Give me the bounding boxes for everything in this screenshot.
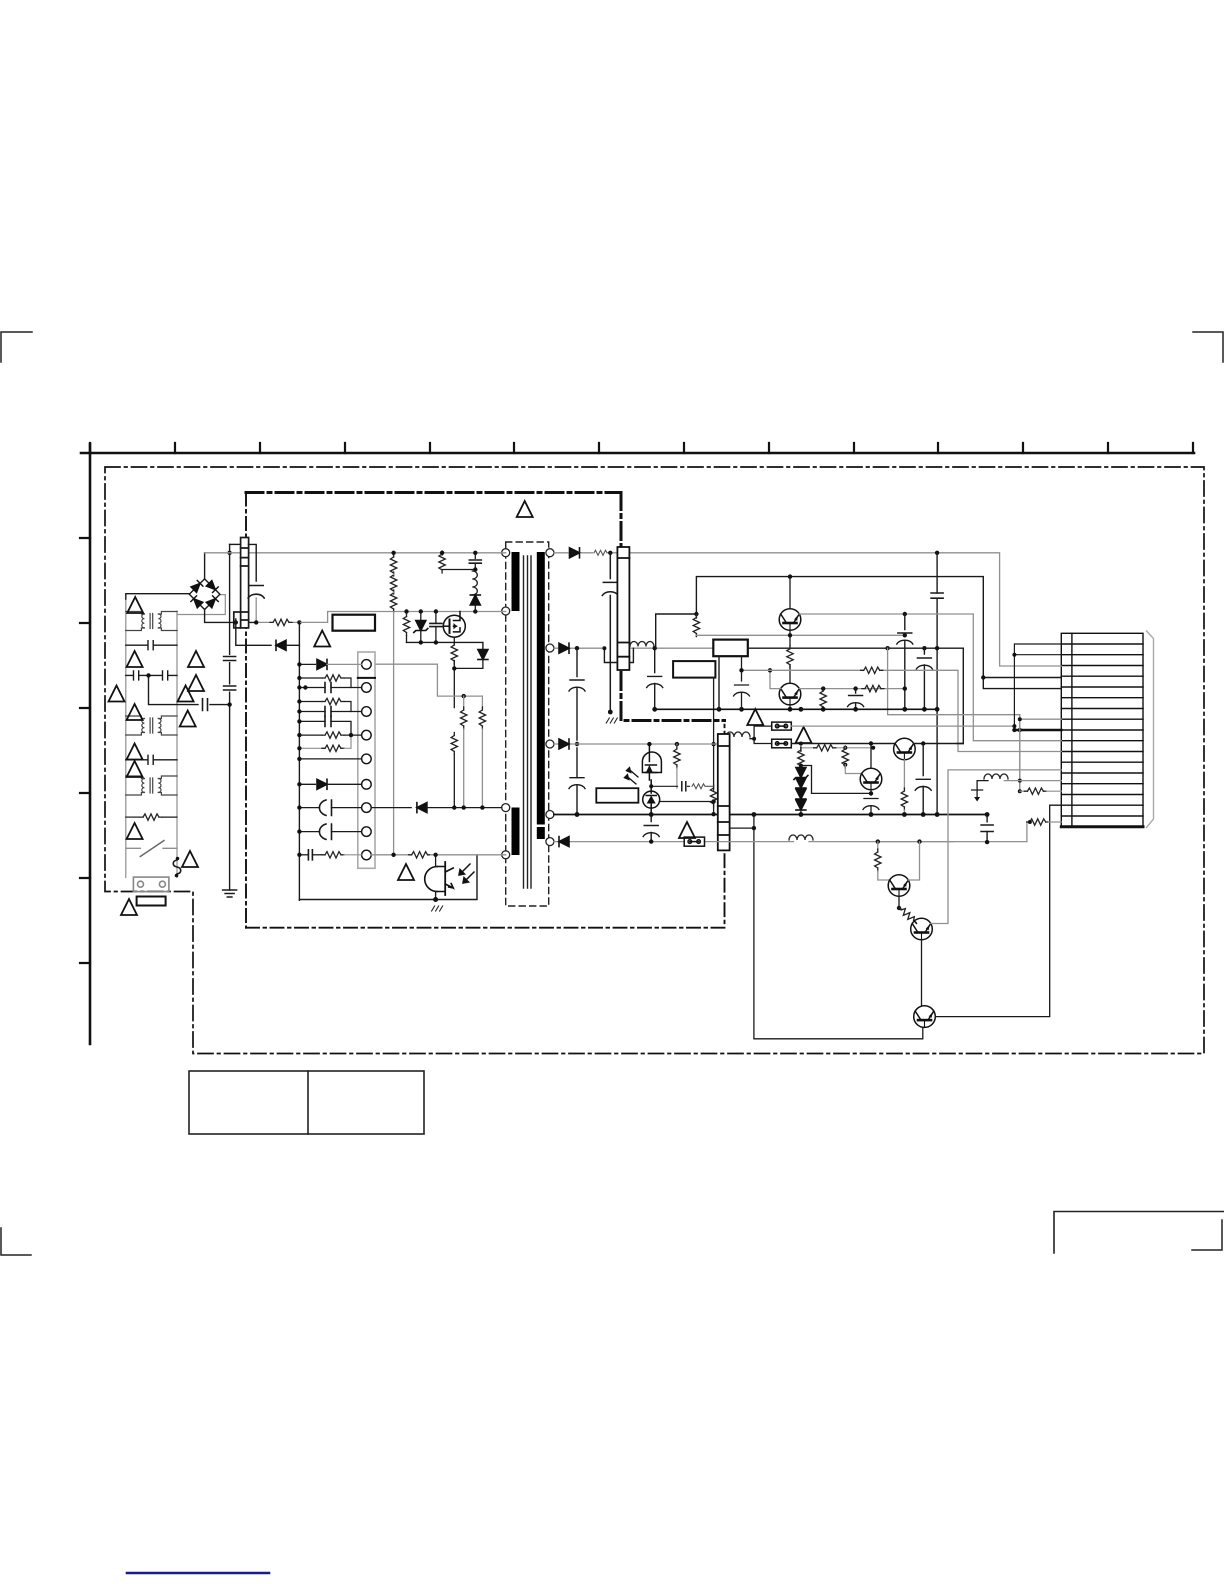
corner mark bottom-left — [1, 1228, 31, 1255]
row9 resistor — [322, 852, 362, 858]
resistor R-diag — [897, 905, 918, 924]
resistor R-688 vertical — [820, 688, 826, 710]
top ruler ticks — [90, 443, 1193, 453]
photocoupler PC2 LED — [642, 744, 661, 780]
rail R2 — [554, 647, 713, 649]
v6a cap column — [897, 614, 913, 709]
AC rating label box — [137, 897, 166, 906]
capacitor C-gate — [430, 612, 442, 643]
transistor Q3 — [779, 683, 801, 705]
sub rail 747.8 — [801, 744, 873, 748]
loop wire 576 black — [696, 577, 1061, 689]
wire 786 cap+res — [651, 782, 689, 791]
node rail622 junctions — [254, 620, 258, 624]
transistor Q6 — [911, 918, 933, 940]
line filter choke L1 — [126, 612, 177, 631]
transistor Q4 — [894, 738, 916, 760]
left bus row1 diode — [299, 659, 361, 669]
stack tap wire — [801, 766, 871, 794]
row7 polarized capacitor — [299, 800, 361, 815]
diode D-R1 — [570, 548, 580, 558]
transistor Q5b — [888, 875, 910, 897]
resistor R-gate — [403, 612, 409, 643]
node Y-cap junction — [146, 673, 150, 677]
corner mark bottom-right — [1192, 1220, 1222, 1250]
wire R3b gray — [696, 634, 904, 636]
BoxR1 bottom vertical — [718, 656, 720, 709]
fuse FB1 wire to connector — [791, 726, 1014, 730]
row3 capacitor — [299, 707, 361, 717]
rail842 right to row822 — [1027, 822, 1030, 842]
wire photocoupler emitter to ground — [435, 855, 437, 900]
left ruler ticks — [80, 538, 90, 963]
node R1 cap tap — [608, 551, 612, 555]
wire Q4 emitter — [903, 760, 905, 789]
rail 744 — [554, 743, 719, 745]
BoxR1 gray vertical with cap — [734, 656, 750, 709]
wire earth line — [229, 544, 231, 890]
bottom blue revision line — [127, 1572, 269, 1575]
strip pin9 wire to transformer — [371, 852, 477, 858]
fuse FB2 wire to Q4 — [791, 743, 895, 745]
wire bridge top to HV rail — [204, 553, 206, 579]
branch 887 to connector — [888, 648, 1020, 791]
wire Q7 emitter right — [936, 805, 1062, 1016]
resistor R-cs3 — [479, 696, 485, 808]
wire bridge left to rail — [126, 594, 190, 599]
capacitor C-654 — [647, 648, 663, 709]
node R1 v1 junction — [935, 551, 939, 555]
corner mark top-right — [1193, 332, 1223, 362]
wire Q6 input — [915, 922, 918, 925]
wire AC live rail left — [125, 599, 127, 878]
capacitor Y1 — [126, 671, 149, 680]
inductor L-R2 — [630, 642, 654, 647]
node HV rail tap — [391, 551, 395, 555]
HV rail top gray — [205, 552, 506, 554]
wire bottom return — [299, 855, 477, 900]
connector CN bracket — [1147, 631, 1154, 828]
EC2 tab wire — [727, 738, 730, 740]
earth ground symbol — [223, 890, 237, 897]
wire source diode join — [454, 660, 483, 708]
regulator box BoxR1 — [713, 640, 748, 657]
wire cap bottom to rail622 — [255, 598, 257, 622]
bus3 cap to rail842 — [981, 815, 993, 843]
wire bridge right to EMI rail — [177, 595, 225, 615]
wire Q2 collector — [789, 577, 791, 609]
connector CN pin dividers — [1061, 644, 1143, 816]
wire Q2 emitter down — [789, 630, 791, 646]
resistor R-st3 — [390, 574, 396, 612]
resistor R-st2 — [390, 572, 396, 594]
electrolytic capacitor EC2 — [718, 734, 730, 850]
inductor L-snub — [472, 571, 477, 595]
row6 diode — [299, 779, 361, 789]
wire TL431 to v15 — [660, 801, 714, 803]
electrolytic capacitor EC1 — [617, 547, 629, 670]
resistor R-747 — [814, 745, 836, 751]
resistor R-688b — [862, 685, 884, 691]
wire Y-cap centre tap to earth — [149, 675, 230, 704]
resistor chain R-st1 — [390, 553, 396, 576]
connector strip pins — [362, 660, 372, 860]
wire fuse column top left — [230, 543, 241, 545]
zener ZD-stack — [794, 765, 808, 780]
resistor R-start — [270, 619, 292, 625]
wire bridge bottom to fuse column — [205, 610, 257, 623]
sense line long vertical — [393, 612, 395, 855]
wire Q3 emitter to bus2 — [789, 705, 791, 709]
warning triangle transformer — [517, 501, 533, 517]
wire row773 net — [931, 770, 1062, 924]
line filter choke L3 — [126, 776, 177, 795]
wire Q5b base branch — [875, 842, 890, 880]
resistor row822 — [1027, 819, 1062, 825]
diode D-842 — [559, 837, 569, 847]
warning triangle FB1 — [747, 709, 763, 725]
ground arrow under coil — [972, 781, 988, 802]
wire Q5 collector — [870, 744, 872, 769]
strip pin7 wire to transformer: diode — [371, 803, 502, 813]
wire Q5 emitter cap — [863, 790, 879, 815]
v9 feed rows — [1014, 644, 1061, 726]
resistor R-inrush — [126, 814, 177, 820]
rail 842 — [554, 841, 954, 843]
rail R3a gray — [799, 614, 1061, 741]
transformer T1 shield dashed box — [506, 542, 549, 906]
top ruler line — [81, 452, 1194, 455]
wire rail622 step to mosfet rail — [299, 612, 505, 623]
mosfet Q1 — [443, 612, 465, 638]
R2 jog into EC1 bottom — [604, 648, 633, 662]
bridge rectifier DB1 — [189, 579, 220, 610]
IC box BoxR4 — [596, 788, 638, 803]
capacitor C-earth2 — [228, 686, 231, 690]
diode stack D1 — [796, 778, 806, 788]
R2 black continues to Q4 — [748, 648, 964, 743]
wire 670 line — [742, 670, 1062, 751]
thick wire row730 — [1014, 729, 1061, 732]
wire to Q5 base — [845, 765, 861, 774]
resistor R-cs — [451, 733, 457, 808]
branch column x577 with two caps — [569, 648, 585, 814]
transformer T1 core lines — [524, 556, 532, 888]
wire Q2e to Q3 — [789, 666, 791, 683]
wire diode to left bus — [286, 644, 299, 646]
resistor R-snub — [439, 551, 475, 573]
warning triangle FB2 — [796, 727, 812, 743]
capacitor C-snubber primary — [248, 586, 264, 599]
v15 from BoxR2 down — [713, 678, 715, 815]
transformer T1 primary winding 1 — [512, 552, 520, 611]
resistor R-Q4e — [901, 788, 907, 815]
outer dash-dot boundary — [105, 467, 1204, 1054]
row5 wire — [299, 758, 361, 760]
fuse FB1 — [772, 722, 792, 730]
AC inlet connector — [133, 877, 169, 892]
transformer T1 terminals — [502, 549, 554, 859]
wire mosfet source down — [453, 637, 455, 644]
rail R1 gray — [554, 553, 1061, 666]
transistor Q7 — [914, 1006, 936, 1028]
control IC box — [333, 615, 376, 631]
coil into row781 — [1004, 780, 1061, 782]
fuse FB3 — [684, 837, 704, 846]
gate rail bottom — [407, 642, 483, 649]
capacitor X2 — [126, 755, 177, 764]
rail 622 gray — [256, 621, 299, 623]
wire Q4 out — [914, 743, 964, 745]
wire Q5b emitter — [898, 896, 900, 908]
row4 capacitor upper — [299, 716, 351, 735]
capacitor Y3 — [203, 699, 208, 711]
wire Q3 base left — [770, 670, 781, 688]
connector strip CN-P body — [358, 652, 375, 868]
wire Q5b collector — [908, 842, 919, 880]
warning triangle control — [314, 631, 330, 647]
diode D-bus — [276, 640, 286, 650]
wire 614 to rail R2 — [656, 614, 697, 648]
connector CN body — [1061, 633, 1143, 827]
wire AC neutral rail right — [176, 611, 178, 878]
inductor L-842 — [789, 835, 813, 840]
PC2 emission arrows — [624, 768, 638, 785]
chassis ground 777 EC1 — [606, 718, 617, 723]
capacitor C-688 — [848, 689, 864, 710]
warning triangles AC section — [127, 597, 143, 613]
connector strip divider — [358, 677, 375, 679]
transistor Q2 — [779, 609, 801, 631]
inductor L-EC2 — [726, 732, 750, 737]
node earth junctions — [227, 702, 231, 706]
transistor Q5 — [860, 768, 882, 790]
node C-R1 ground — [608, 710, 613, 715]
wire fuse column top right to cap — [249, 544, 257, 581]
IC box BoxR2 — [673, 661, 715, 678]
diode D-R2 — [559, 643, 569, 653]
left control bus vertical — [298, 622, 300, 900]
branch 924 cap to bus2 — [916, 648, 932, 709]
fuse feed column — [750, 726, 772, 743]
bottom-right open box — [1054, 1212, 1224, 1254]
resistor row791 — [1020, 788, 1062, 794]
warning triangle FB3 — [679, 822, 695, 838]
wire Q3 right line — [799, 688, 905, 690]
bottom-left table — [189, 1071, 424, 1134]
resistor R-cs2 — [461, 696, 467, 808]
TL431 bottom cap — [643, 815, 659, 842]
corner mark top-left — [1, 332, 32, 362]
row3 resistor branch — [299, 698, 351, 711]
capacitor C-R1 — [602, 553, 618, 712]
capacitor C-earth1 — [228, 657, 231, 661]
row4b resistor lower — [299, 735, 351, 751]
diode D-744 — [559, 739, 569, 749]
v8b cap to bus3 — [915, 744, 931, 815]
zener stack column — [798, 747, 804, 769]
current sense split — [376, 664, 483, 696]
left ruler line — [89, 444, 92, 1044]
v14 long vertical — [754, 815, 923, 1039]
resistor R-R1 — [594, 550, 607, 555]
photocoupler light arrows — [459, 864, 474, 883]
zener ZD1 — [414, 612, 428, 643]
chassis ground 777 — [432, 906, 443, 911]
transformer T1 secondary winding 2 — [537, 827, 545, 839]
EC2 side stub to v14 — [730, 827, 754, 829]
switch SW1 — [126, 841, 177, 857]
capacitor X1 — [126, 641, 177, 650]
shunt regulator TL431 — [643, 780, 660, 815]
diode D-source — [478, 650, 488, 660]
diode stack D3 — [796, 800, 806, 815]
resistor R-845 — [842, 746, 848, 768]
bus2 — [655, 708, 937, 710]
fuse column F1 — [234, 538, 249, 628]
wire fuse tab to diode row — [236, 619, 271, 645]
inner bold dash-dot boundary (primary side) — [246, 493, 725, 721]
diode stack D2 — [796, 789, 806, 799]
diode D-snub — [470, 594, 480, 612]
transformer T1 secondary winding 1 — [537, 552, 545, 825]
resistor R-676 — [674, 744, 680, 788]
wire Q6 emitter to Q7 — [921, 940, 923, 1006]
row4 resistor — [299, 732, 361, 738]
transformer T1 primary winding 2 — [512, 808, 520, 856]
capacitor Y2 — [149, 671, 178, 680]
node R2 cap654 — [653, 646, 657, 650]
node R2 branch — [575, 646, 579, 650]
resistor R-source — [451, 642, 457, 664]
resistor R-Q2e — [787, 646, 793, 668]
v1 vertical with cap — [931, 553, 943, 815]
v10 row feeds — [1020, 715, 1062, 792]
row8 polarized capacitor — [299, 824, 361, 839]
resistor R-670 — [861, 667, 883, 673]
row9 capacitor — [299, 850, 322, 860]
fuse FB2 — [772, 739, 792, 748]
node mosfet rail junctions — [404, 609, 408, 613]
capacitor C-snub — [469, 553, 481, 571]
row2 resistor branch — [299, 675, 351, 688]
resistor R-Q2b — [693, 614, 699, 637]
rail 842 to Q chain — [878, 841, 1027, 843]
photocoupler PC1 photo-transistor — [425, 862, 454, 895]
line filter choke L2 — [126, 716, 177, 735]
strain relief wavy — [173, 860, 181, 874]
row2 capacitor — [299, 683, 361, 693]
